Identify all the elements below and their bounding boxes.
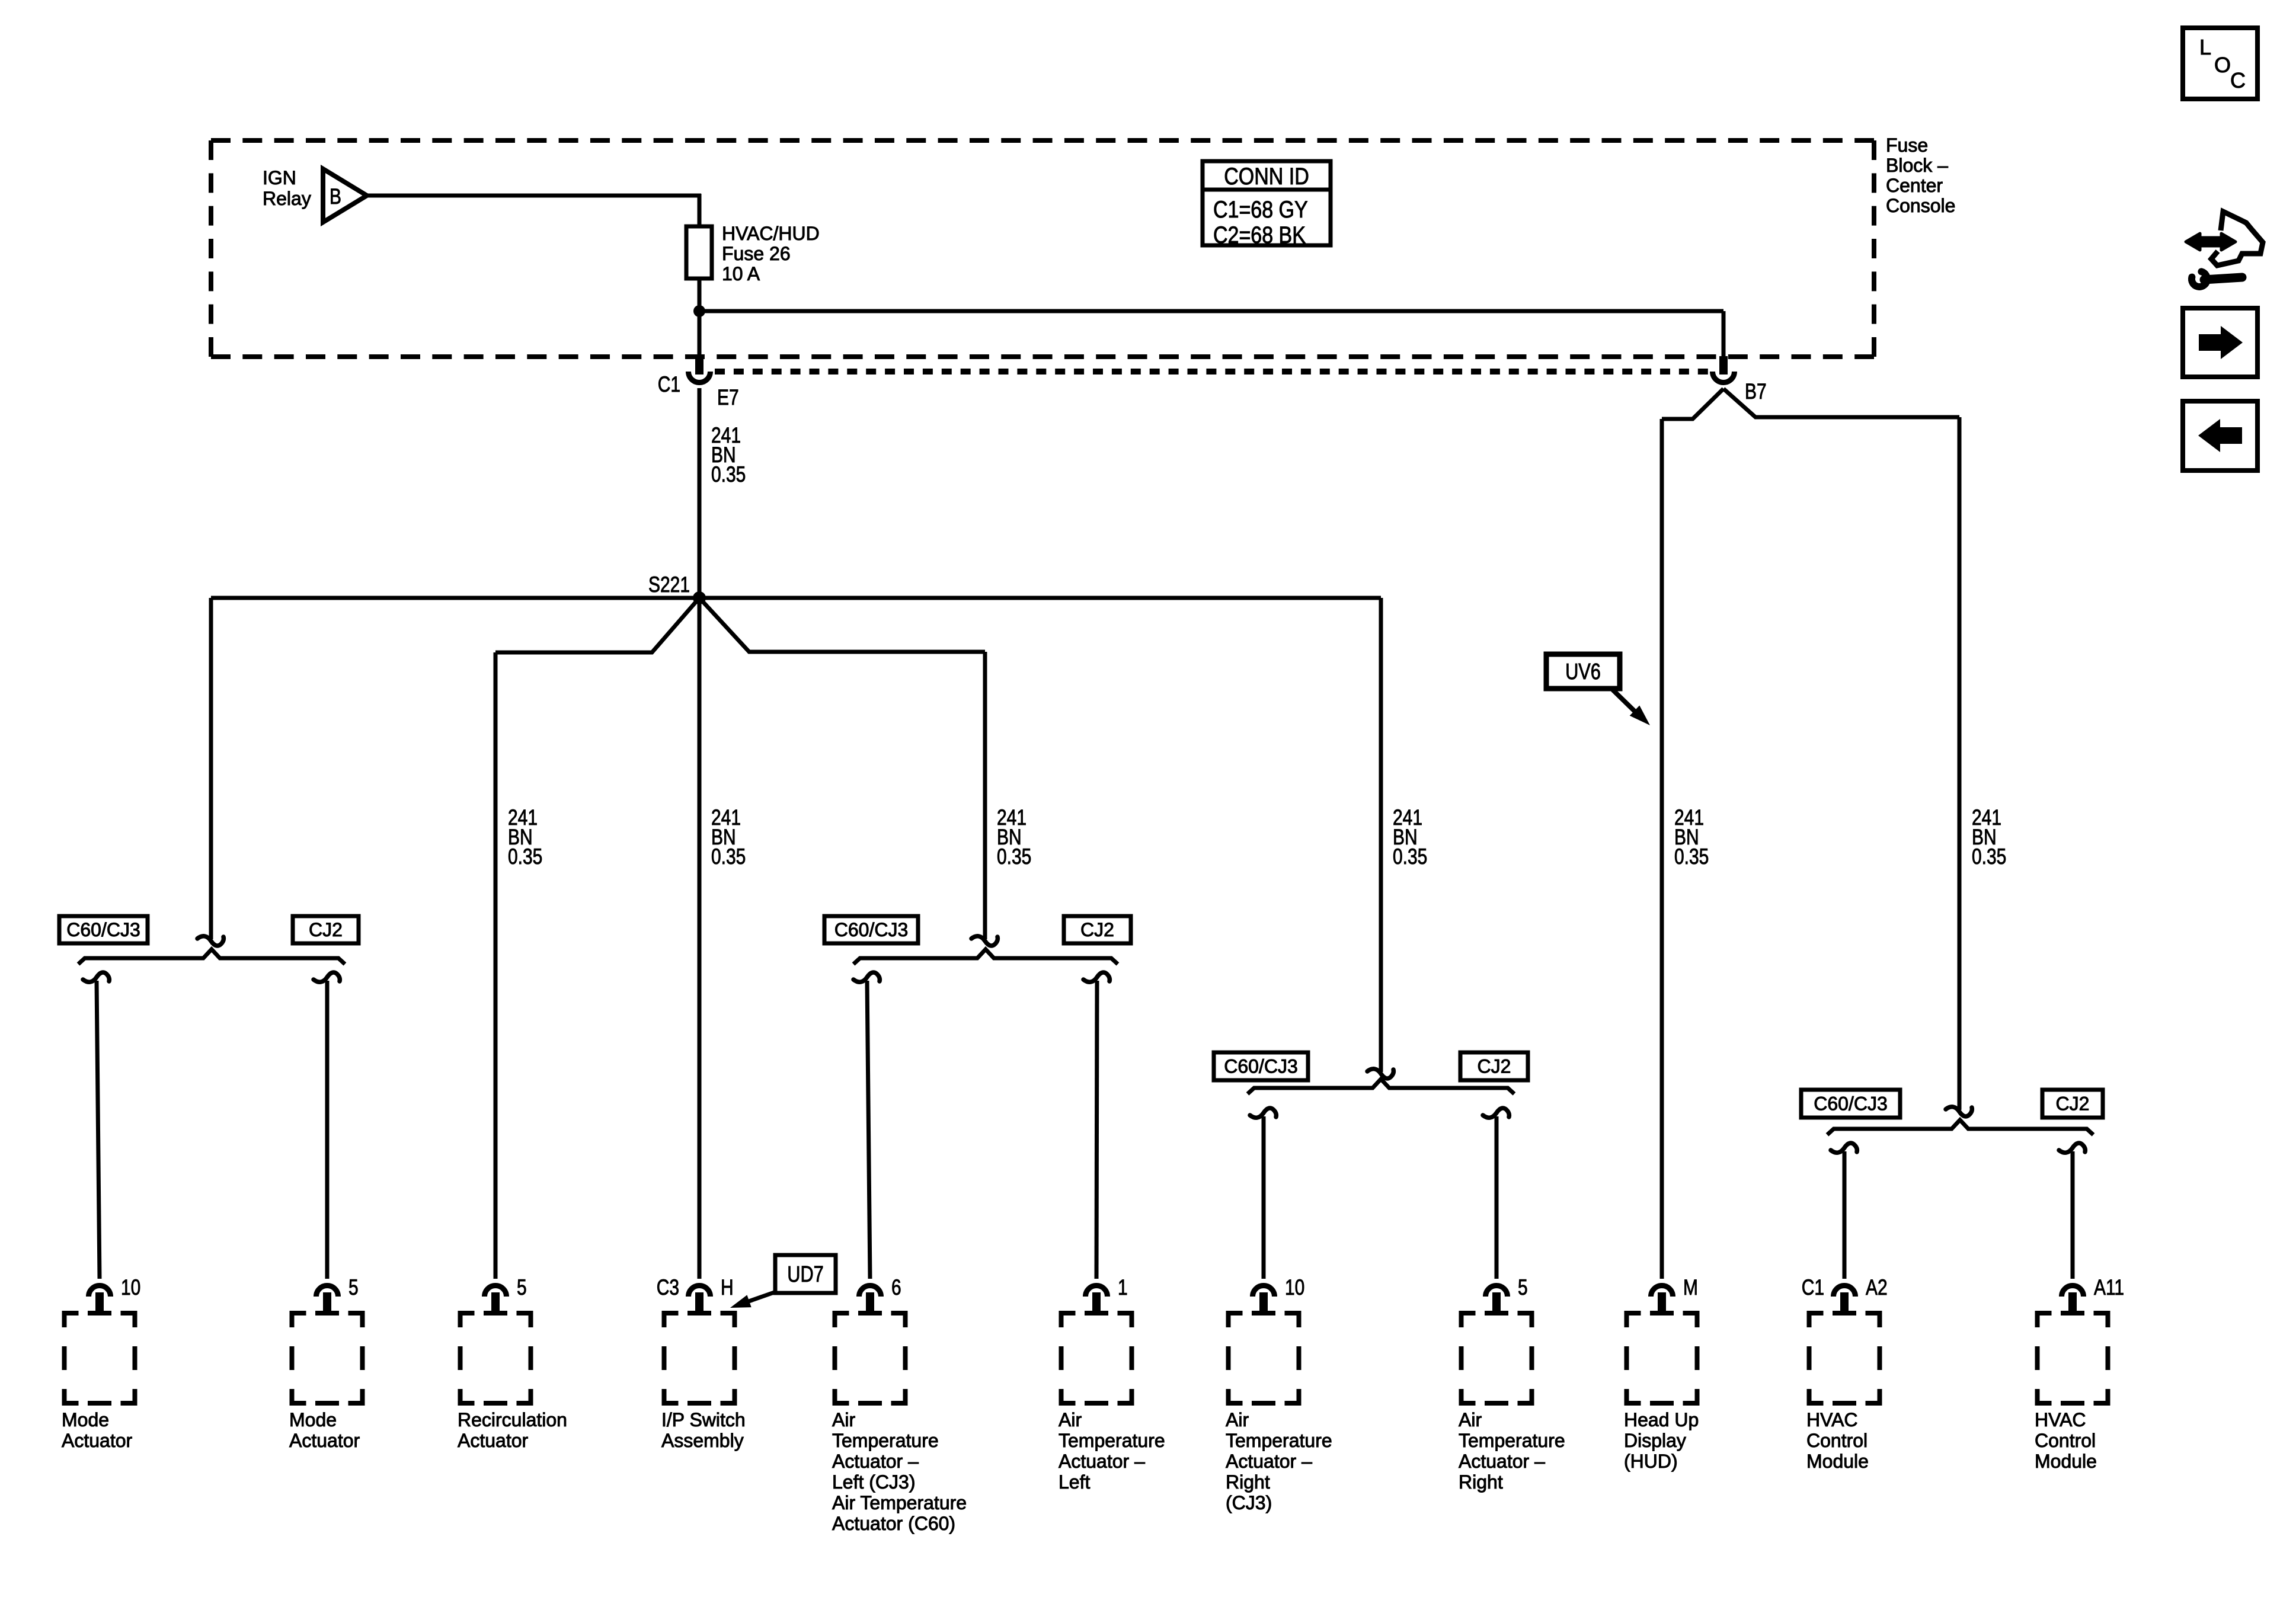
svg-text:IGN: IGN (263, 167, 296, 188)
svg-text:Control: Control (1806, 1430, 1868, 1451)
svg-text:Actuator –: Actuator – (1226, 1451, 1312, 1472)
svg-text:Module: Module (1806, 1451, 1869, 1472)
svg-text:CJ2: CJ2 (1080, 919, 1114, 940)
svg-text:O: O (2214, 53, 2231, 77)
svg-text:Actuator (C60): Actuator (C60) (832, 1513, 955, 1534)
svg-text:0.35: 0.35 (711, 845, 746, 869)
svg-text:Left: Left (1059, 1471, 1090, 1493)
svg-text:HVAC: HVAC (1806, 1409, 1858, 1430)
svg-text:Recirculation: Recirculation (458, 1409, 567, 1430)
svg-text:CJ2: CJ2 (309, 919, 343, 940)
svg-text:Mode: Mode (289, 1409, 337, 1430)
svg-text:1: 1 (1118, 1276, 1128, 1300)
svg-text:Right: Right (1459, 1471, 1503, 1493)
svg-text:CJ2: CJ2 (1478, 1056, 1511, 1077)
svg-text:Temperature: Temperature (1226, 1430, 1332, 1451)
svg-text:(HUD): (HUD) (1624, 1451, 1678, 1472)
svg-text:Air: Air (832, 1409, 855, 1430)
svg-text:C60/CJ3: C60/CJ3 (1224, 1056, 1298, 1077)
svg-text:5: 5 (517, 1276, 527, 1300)
svg-text:C60/CJ3: C60/CJ3 (1814, 1093, 1888, 1115)
svg-text:M: M (1683, 1276, 1698, 1300)
svg-text:Control: Control (2035, 1430, 2096, 1451)
svg-text:0.35: 0.35 (1674, 845, 1709, 869)
svg-text:Actuator: Actuator (62, 1430, 133, 1451)
svg-text:Air Temperature: Air Temperature (832, 1492, 967, 1513)
svg-text:Actuator –: Actuator – (832, 1451, 919, 1472)
svg-text:UV6: UV6 (1565, 660, 1601, 684)
svg-text:Head Up: Head Up (1624, 1409, 1699, 1430)
svg-text:Temperature: Temperature (1059, 1430, 1165, 1451)
svg-text:Fuse 26: Fuse 26 (722, 243, 791, 264)
svg-text:Module: Module (2035, 1451, 2097, 1472)
svg-text:S221: S221 (648, 573, 690, 597)
svg-text:Actuator –: Actuator – (1059, 1451, 1145, 1472)
svg-text:Air: Air (1226, 1409, 1249, 1430)
svg-text:L: L (2199, 35, 2211, 59)
svg-text:C3: C3 (657, 1276, 679, 1300)
svg-text:C60/CJ3: C60/CJ3 (834, 919, 909, 940)
svg-text:Assembly: Assembly (661, 1430, 744, 1451)
svg-text:HVAC: HVAC (2035, 1409, 2086, 1430)
svg-text:C1: C1 (658, 373, 680, 397)
svg-text:Actuator: Actuator (289, 1430, 360, 1451)
svg-text:6: 6 (891, 1276, 901, 1300)
svg-text:E7: E7 (717, 386, 739, 410)
svg-text:C1=68 GY: C1=68 GY (1213, 196, 1308, 222)
svg-text:(CJ3): (CJ3) (1226, 1492, 1272, 1513)
svg-text:Actuator: Actuator (458, 1430, 529, 1451)
svg-text:C: C (2230, 68, 2246, 92)
svg-text:I/P Switch: I/P Switch (661, 1409, 746, 1430)
svg-text:Display: Display (1624, 1430, 1686, 1451)
svg-text:10 A: 10 A (722, 263, 760, 284)
svg-text:0.35: 0.35 (711, 463, 746, 487)
svg-text:Air: Air (1059, 1409, 1082, 1430)
svg-text:C60/CJ3: C60/CJ3 (66, 919, 140, 940)
svg-text:A2: A2 (1866, 1276, 1888, 1300)
svg-text:Air: Air (1459, 1409, 1482, 1430)
svg-text:B: B (330, 185, 341, 209)
svg-text:10: 10 (121, 1276, 140, 1300)
svg-text:Center: Center (1886, 175, 1943, 196)
svg-text:H: H (721, 1276, 734, 1300)
svg-text:5: 5 (1518, 1276, 1528, 1300)
svg-text:0.35: 0.35 (1972, 845, 2006, 869)
svg-text:HVAC/HUD: HVAC/HUD (722, 223, 820, 244)
svg-text:C2=68 BK: C2=68 BK (1213, 221, 1306, 248)
svg-text:CONN ID: CONN ID (1224, 162, 1309, 189)
svg-text:UD7: UD7 (787, 1262, 824, 1287)
svg-text:0.35: 0.35 (508, 845, 542, 869)
svg-text:Left (CJ3): Left (CJ3) (832, 1471, 915, 1493)
svg-text:Temperature: Temperature (832, 1430, 939, 1451)
svg-text:0.35: 0.35 (1393, 845, 1427, 869)
svg-text:Right: Right (1226, 1471, 1270, 1493)
svg-text:Console: Console (1886, 195, 1955, 216)
svg-text:B7: B7 (1745, 380, 1767, 404)
svg-text:10: 10 (1285, 1276, 1304, 1300)
svg-text:CJ2: CJ2 (2056, 1093, 2090, 1115)
svg-text:C1: C1 (1802, 1276, 1824, 1300)
svg-text:Relay: Relay (263, 188, 311, 209)
svg-text:Block –: Block – (1886, 155, 1948, 176)
svg-text:Fuse: Fuse (1886, 135, 1928, 156)
svg-text:5: 5 (348, 1276, 359, 1300)
svg-text:Temperature: Temperature (1459, 1430, 1565, 1451)
svg-text:Mode: Mode (62, 1409, 109, 1430)
svg-text:A11: A11 (2094, 1276, 2124, 1300)
svg-text:Actuator –: Actuator – (1459, 1451, 1545, 1472)
svg-text:0.35: 0.35 (997, 845, 1031, 869)
